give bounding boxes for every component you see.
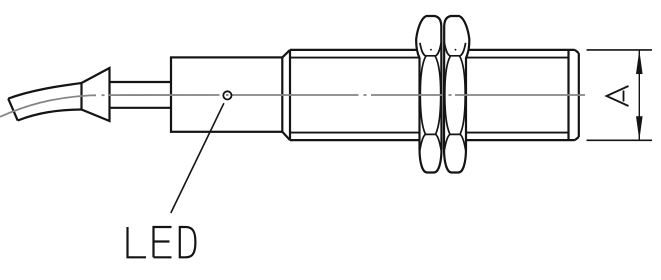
LED text: E	[154, 227, 172, 257]
thread end line	[567, 50, 569, 140]
arrowhead bottom	[636, 116, 643, 140]
nut 1 silhouette	[416, 16, 441, 173]
LED leader line	[171, 103, 224, 213]
LED text: D	[180, 227, 196, 257]
label A (rotated)	[607, 86, 629, 106]
nut 1 facet lens	[420, 56, 440, 134]
cable	[8, 83, 81, 121]
barrel outer lines	[290, 50, 575, 140]
nut 2 silhouette	[444, 16, 469, 173]
nut 2 upper chamfer arc	[444, 43, 465, 56]
cable tube	[110, 82, 172, 108]
LED text: L	[128, 227, 147, 257]
chamfer to barrel	[282, 50, 290, 140]
centerline	[0, 95, 585, 117]
nut 1 lower chamfer arc	[420, 134, 441, 150]
nut 1 upper chamfer arc	[420, 43, 441, 56]
nut 2 facet lens	[445, 56, 465, 134]
LED indicator	[223, 91, 231, 99]
thread root lines	[290, 58, 569, 133]
dimension line A	[638, 50, 640, 140]
nut 2 facet dot	[455, 49, 457, 51]
sensor body	[171, 57, 282, 131]
strain relief cone	[82, 68, 110, 121]
arrowhead top	[636, 50, 643, 74]
nut 2 lower chamfer arc	[444, 134, 465, 150]
nut 1 facet dot	[430, 49, 432, 51]
extension line bottom	[587, 139, 653, 141]
extension line top	[587, 49, 653, 51]
barrel tip chamfer	[575, 50, 579, 140]
